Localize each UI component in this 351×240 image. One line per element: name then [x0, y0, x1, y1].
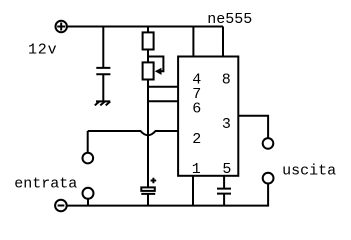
svg-text:8: 8 [222, 71, 231, 88]
svg-text:entrata: entrata [14, 176, 77, 193]
svg-text:12v: 12v [28, 41, 57, 58]
svg-text:3: 3 [222, 116, 231, 133]
svg-text:ne555: ne555 [207, 11, 252, 28]
svg-text:6: 6 [192, 101, 201, 118]
svg-text:5: 5 [222, 161, 231, 178]
svg-text:uscita: uscita [282, 163, 336, 180]
svg-text:2: 2 [192, 131, 201, 148]
svg-text:1: 1 [192, 161, 201, 178]
